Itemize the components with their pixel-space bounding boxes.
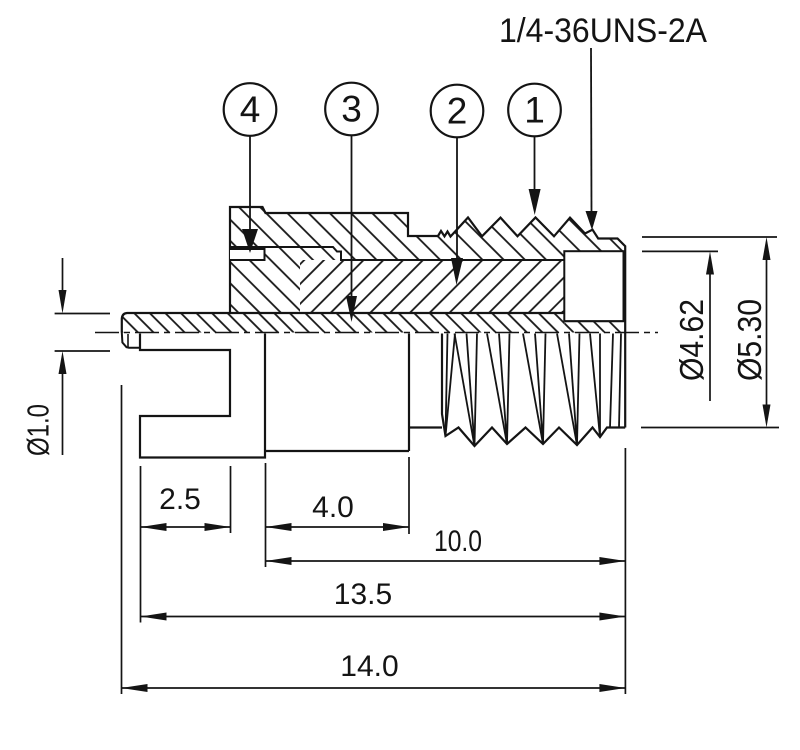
- pin end chamfer line: [127, 334, 129, 347]
- svg-text:4: 4: [240, 89, 261, 130]
- balloon 4: [224, 83, 277, 136]
- balloon 1 leader: [534, 137, 536, 192]
- dim 4.0: [266, 526, 410, 528]
- dim Ø1.0 extension lines: [55, 313, 110, 315]
- step block (item 4, white): [230, 249, 265, 260]
- lower thread silhouette: [442, 334, 625, 447]
- balloon 2: [431, 85, 484, 138]
- lower thread flank lines: [446, 334, 622, 447]
- svg-text:2.5: 2.5: [159, 483, 201, 516]
- insulator mid band (hatched other way): [300, 260, 564, 313]
- center pin upper half (hatched bar): [122, 313, 565, 333]
- dim 10.0: [266, 560, 626, 562]
- svg-text:Ø5.30: Ø5.30: [731, 299, 768, 381]
- lower thread relief neck: [409, 426, 442, 428]
- dim Ø4.62: [709, 272, 711, 401]
- bore at right end (white window): [564, 251, 623, 321]
- thread spec leader: [590, 48, 593, 213]
- lower barrel: [265, 334, 409, 452]
- svg-text:13.5: 13.5: [334, 578, 392, 611]
- balloon 2 leader: [456, 138, 458, 261]
- svg-text:Ø4.62: Ø4.62: [673, 299, 710, 381]
- balloon 3 leader: [351, 136, 353, 299]
- balloon 4 leader: [249, 136, 251, 232]
- dim Ø1.0 arrows: [62, 258, 64, 292]
- bottom extension lines: [121, 385, 123, 694]
- svg-text:4.0: 4.0: [312, 491, 354, 524]
- dim Ø5.30: [766, 258, 768, 406]
- balloon 1: [508, 84, 561, 137]
- body outline stroke: [230, 207, 625, 428]
- pin lower end (exterior, white): [122, 333, 140, 348]
- dim 13.5: [141, 616, 626, 618]
- internal line L1 with jog to L2: [230, 247, 564, 260]
- dim 2.5: [141, 526, 231, 528]
- dim 14.0: [122, 687, 626, 689]
- svg-text:3: 3: [341, 89, 362, 130]
- body upper section (hatched): [230, 207, 625, 333]
- lower-left body outline (exterior view): [140, 334, 265, 458]
- dense hatch strip below bore: [564, 321, 623, 332]
- svg-text:1: 1: [524, 90, 545, 131]
- svg-text:14.0: 14.0: [340, 650, 398, 683]
- svg-text:Ø1.0: Ø1.0: [21, 404, 56, 456]
- svg-text:10.0: 10.0: [434, 525, 482, 558]
- svg-text:2: 2: [447, 91, 468, 132]
- pin tip chamfer: [560, 310, 565, 314]
- svg-text:1/4-36UNS-2A: 1/4-36UNS-2A: [499, 12, 707, 50]
- right extension lines: [642, 236, 777, 238]
- centerline (dash-dot): [95, 332, 658, 334]
- balloon 3: [325, 83, 378, 136]
